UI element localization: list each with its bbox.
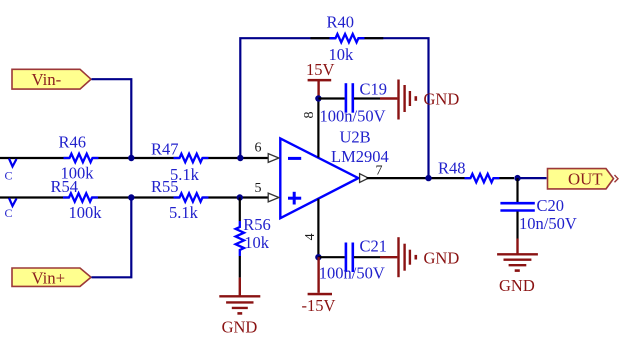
svg-text:R47: R47 [151,139,179,158]
pin R40.2 [359,37,384,39]
power -15V [302,257,336,315]
port OUT [548,169,619,189]
svg-text:100n/50V: 100n/50V [319,264,385,283]
resistor R40 [330,34,365,42]
svg-text:C: C [5,168,13,182]
wire junction to C20 [516,178,518,204]
svg-text:10n/50V: 10n/50V [519,214,577,233]
clipped component mark row1 left edge [9,159,17,167]
ground GND (C19, bar style) [380,80,459,120]
wire feedback loop [240,38,428,178]
ground GND (R56, earth style) [219,278,260,337]
wire row2 (non-inverting input net) [0,196,269,198]
svg-text:R56: R56 [243,215,271,234]
resistor R46 [64,154,99,162]
svg-text:10k: 10k [244,233,270,252]
resistor R54 [63,193,98,201]
pin arrow input 5 [268,193,279,202]
svg-text:R55: R55 [151,177,179,196]
pin arrow input 6 [268,154,279,163]
junction row1/feedback [237,155,243,161]
svg-text:GND: GND [424,248,460,267]
wire Vin+ to row2 [92,198,132,278]
capacitor C19 [346,83,353,113]
svg-text:U2B: U2B [340,128,371,147]
junction feedback/output [425,175,431,181]
wire Vin- to row1 [92,79,132,158]
wire to C21 [318,256,344,258]
svg-text:15V: 15V [306,60,335,79]
svg-text:4: 4 [303,233,318,240]
svg-text:C: C [5,206,13,220]
svg-text:100n/50V: 100n/50V [320,106,386,125]
wire R56 to GND [239,256,241,278]
svg-text:C21: C21 [360,236,388,255]
svg-text:R48: R48 [438,159,466,178]
svg-text:GND: GND [222,318,258,337]
pin arrow output 7 [360,174,369,183]
svg-text:-15V: -15V [302,296,336,315]
svg-text:R54: R54 [51,177,79,196]
wire junction to OUT port [518,177,547,179]
svg-text:LM2904: LM2904 [331,147,389,166]
junction R48/C20/OUT [514,175,520,181]
junction 15V/C19/pin8 [315,95,321,101]
resistor R47 [174,154,209,162]
wire C20 to GND [516,212,518,239]
svg-text:C20: C20 [537,196,565,215]
wire row2 to R56 [239,198,241,222]
capacitor C21 [346,243,353,273]
op-amp plus symbol [288,192,301,205]
pin R40.1 [310,37,335,39]
svg-text:Vin-: Vin- [32,70,62,89]
svg-text:8: 8 [302,112,317,119]
svg-text:Vin+: Vin+ [32,268,66,287]
wire row1 (inverting input net) [0,157,269,159]
svg-text:R40: R40 [327,13,355,32]
ground GND (C20, earth style) [497,239,538,296]
junction -15V/C21/pin4 [315,254,321,260]
svg-text:OUT: OUT [568,170,603,189]
wire C19 to GND [354,97,380,99]
junction R56/row2 [237,194,243,200]
junction row2/Vin+ [128,194,134,200]
power 15V [306,60,335,98]
svg-text:GND: GND [424,90,460,109]
resistor R55 [174,193,209,201]
svg-text:C19: C19 [360,79,388,98]
port Vin+ [12,268,91,287]
wire output pin7 [367,177,515,179]
resistor R56 [236,221,244,256]
ground GND (C21, bar style) [380,237,459,277]
op-amp minus symbol [288,157,301,160]
clipped component mark row2 left edge [9,198,17,206]
resistor R48 [465,174,500,182]
pin 8 wire (V+ supply) [317,99,319,158]
junction row1/Vin- [128,155,134,161]
pin 4 wire (V- supply) [317,199,319,258]
op-amp U2B triangle [280,138,358,218]
capacitor C20 [500,203,534,210]
port Vin- [12,69,91,89]
svg-text:6: 6 [255,140,262,155]
svg-text:R46: R46 [59,133,87,152]
wire C21 to GND [354,256,380,258]
svg-text:5.1k: 5.1k [169,203,199,222]
svg-text:GND: GND [499,276,535,295]
wire to C19 [318,97,344,99]
svg-text:100k: 100k [69,203,103,222]
svg-text:5: 5 [255,181,262,196]
